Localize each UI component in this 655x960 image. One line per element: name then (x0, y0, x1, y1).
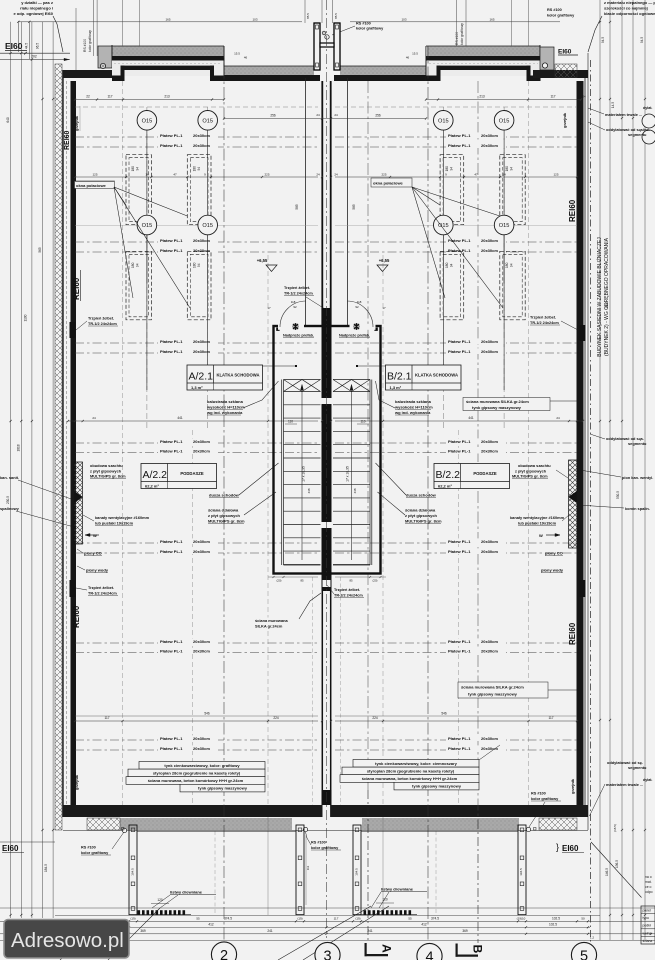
svg-text:dusza schodów: dusza schodów (406, 493, 437, 498)
svg-text:241: 241 (367, 929, 373, 933)
right exterior wall thick face (577, 81, 584, 805)
svg-text:94: 94 (509, 167, 513, 171)
svg-text:Płatew PL-1: Płatew PL-1 (160, 539, 183, 544)
skylight A row2 left (126, 251, 151, 319)
left exterior wall insulation hatch (55, 64, 62, 830)
svg-text:tynk cienkowarstwowy, kolor: g: tynk cienkowarstwowy, kolor: grafitowy (164, 763, 240, 768)
svg-text:24: 24 (92, 416, 96, 420)
svg-text:wg ind. wykonania: wg ind. wykonania (206, 410, 243, 415)
svg-text:110: 110 (360, 420, 365, 424)
svg-text:165: 165 (489, 18, 494, 22)
svg-text:94: 94 (197, 167, 201, 171)
svg-text:balustrada szklana: balustrada szklana (395, 399, 432, 404)
axis line 4 vertical (427, 46, 429, 941)
sciana murowana SILKA note unit B upper (463, 398, 550, 411)
axis A line (367, 790, 369, 943)
right margin tick marks (599, 21, 601, 23)
stair direction arrow B (351, 386, 353, 560)
svg-text:585: 585 (352, 204, 356, 210)
svg-text:ściana działowa: ściana działowa (208, 508, 239, 513)
right exterior wall lines / dylatacja (584, 70, 586, 817)
svg-text:PODDASZE: PODDASZE (473, 471, 496, 476)
top-right corner parapet detail (540, 47, 554, 70)
svg-text:180: 180 (192, 262, 196, 268)
svg-text:20x30cm: 20x30cm (481, 238, 498, 243)
svg-text:panel: panel (643, 909, 652, 913)
svg-text:5: 5 (580, 949, 588, 960)
interior vertical grid line x528 (528, 81, 530, 805)
center axis line (326, 0, 328, 938)
svg-text:EI60: EI60 (562, 844, 579, 853)
svg-text:94.5: 94.5 (601, 37, 605, 43)
svg-text:20x30cm: 20x30cm (193, 746, 210, 751)
svg-text:103: 103 (252, 18, 257, 22)
svg-text:Płatew PL-1: Płatew PL-1 (160, 133, 183, 138)
stair treads flight A (284, 391, 321, 393)
O15 window circle A1 (137, 111, 157, 131)
svg-text:Płatew PL-1: Płatew PL-1 (448, 349, 471, 354)
svg-text:374.5: 374.5 (224, 917, 232, 921)
stair flight side lines (281, 380, 283, 566)
svg-text:102.5: 102.5 (549, 923, 557, 927)
svg-text:O15: O15 (202, 223, 213, 229)
interior dim row y421 (68, 420, 318, 422)
interior dashed ceiling line (75, 106, 318, 108)
svg-text:369: 369 (462, 929, 468, 933)
terrace A left post (129, 825, 137, 915)
party wall upper thin section (321, 81, 323, 326)
svg-text:TR-1/2 24x24cm: TR-1/2 24x24cm (88, 322, 117, 326)
svg-text:dylat.: dylat. (643, 106, 652, 110)
svg-text:TR-2/2 24x24cm: TR-2/2 24x24cm (334, 594, 363, 598)
svg-text:1.2: 1.2 (590, 936, 595, 940)
svg-text:lub pustaki 19x19cm: lub pustaki 19x19cm (518, 520, 557, 525)
svg-text:94: 94 (136, 167, 140, 171)
svg-text:+6,55: +6,55 (257, 258, 268, 263)
svg-text:118: 118 (357, 300, 362, 304)
interior dim row y99 right (426, 99, 581, 101)
party wall stair section (322, 326, 332, 398)
svg-text:O15: O15 (142, 223, 153, 229)
svg-text:17: 17 (267, 306, 271, 310)
svg-text:A: A (380, 944, 394, 953)
svg-text:22: 22 (86, 95, 90, 99)
svg-text:TR-1/2 24x24cm: TR-1/2 24x24cm (284, 292, 313, 296)
svg-text:kolor grafitowy: kolor grafitowy (547, 14, 575, 18)
stair balustrade diagonals A (284, 380, 303, 392)
O15 window circle B2 (494, 111, 514, 131)
svg-text:na o: na o (645, 875, 652, 879)
svg-text:94.5: 94.5 (640, 37, 644, 43)
svg-text:85.5: 85.5 (306, 13, 310, 19)
svg-text:(18.5): (18.5) (613, 824, 617, 832)
interior vertical grid lower-half lines (192, 430, 194, 805)
svg-text:94: 94 (509, 263, 513, 267)
svg-text:24: 24 (316, 113, 320, 117)
svg-text:materiałem trwale ...: materiałem trwale ... (606, 782, 643, 787)
svg-text:grzejnik: grzejnik (570, 778, 575, 794)
wall spec box unit B (353, 760, 479, 768)
svg-text:374.5: 374.5 (431, 917, 439, 921)
svg-text:styropian 28cm (pogrubienie na: styropian 28cm (pogrubienie na kasetę ro… (367, 769, 455, 774)
svg-text:RS #100: RS #100 (83, 39, 87, 52)
balustrada leader A (243, 381, 279, 408)
top wall raised section left grey band (112, 46, 224, 56)
W arrow right (546, 534, 560, 536)
svg-text:spalinowy: spalinowy (0, 506, 20, 511)
bottom wall grey band right (362, 818, 519, 830)
svg-text:20x30cm: 20x30cm (481, 539, 498, 544)
svg-text:(19): (19) (297, 917, 302, 921)
svg-text:O15: O15 (499, 119, 510, 125)
svg-text:225: 225 (381, 173, 386, 177)
svg-text:Trzpień żelbet.: Trzpień żelbet. (284, 286, 310, 290)
left wall trzpien block upper (70, 322, 76, 338)
axis line A upper (367, 81, 369, 790)
svg-text:184.5: 184.5 (44, 864, 48, 872)
svg-text:Płatew PL-1: Płatew PL-1 (160, 248, 183, 253)
svg-text:wysokość H=110cm: wysokość H=110cm (394, 405, 433, 410)
terrace B left post (353, 825, 361, 915)
terrace A battens comb (138, 910, 141, 915)
svg-text:55: 55 (408, 917, 412, 921)
svg-text:(19)10: (19)10 (517, 917, 526, 921)
svg-text:62,2 m²: 62,2 m² (145, 484, 159, 489)
top wall right insulation zone (427, 61, 540, 77)
cut table bottom-right (641, 906, 655, 944)
room label B/2.1 KLATKA SCHODOWA (386, 365, 462, 390)
svg-text:(19): (19) (130, 917, 135, 921)
svg-text:224: 224 (273, 716, 279, 720)
svg-text:kolor grafitowy: kolor grafitowy (88, 30, 92, 52)
svg-text:Płatew PL-1: Płatew PL-1 (448, 639, 471, 644)
svg-text:180: 180 (505, 262, 509, 268)
door swing arc B (347, 301, 373, 327)
top wall left insulation zone (112, 61, 224, 77)
svg-text:kanały wentylacyjne #160mm: kanały wentylacyjne #160mm (95, 515, 150, 520)
svg-text:20x30cm: 20x30cm (481, 349, 498, 354)
svg-text:kolor grafitowy: kolor grafitowy (460, 23, 464, 45)
svg-text:194.5: 194.5 (131, 868, 135, 876)
svg-text:Nadproże prefab.: Nadproże prefab. (283, 334, 314, 338)
svg-text:O15: O15 (202, 119, 213, 125)
svg-text:85.5: 85.5 (334, 13, 338, 19)
svg-text:117: 117 (334, 917, 339, 921)
svg-text:20x30cm: 20x30cm (193, 449, 210, 454)
skylight centre lines (146, 130, 148, 283)
top wall raised section right grey band (426, 46, 540, 56)
svg-text:Płatew PL-1: Płatew PL-1 (160, 649, 183, 654)
svg-text:KLATKA SCHODOWA: KLATKA SCHODOWA (216, 373, 259, 378)
svg-text:20x30cm: 20x30cm (193, 736, 210, 741)
spec box leader B (479, 745, 500, 760)
door swing arc A (280, 301, 306, 327)
terrace B battens comb (364, 910, 367, 915)
bottom wall insulation hatch right (539, 818, 577, 830)
svg-text:listwy drewniane: listwy drewniane (381, 887, 414, 892)
svg-text:grzejnik: grzejnik (562, 112, 567, 128)
svg-text:24: 24 (556, 416, 560, 420)
svg-text:136.5: 136.5 (615, 860, 619, 868)
svg-text:180: 180 (505, 166, 509, 172)
svg-text:Trzpień żelbet.: Trzpień żelbet. (88, 317, 114, 321)
shaft enclosure left (74, 462, 83, 544)
svg-text:441: 441 (468, 416, 474, 420)
svg-text:Płatew PL-1: Płatew PL-1 (160, 339, 183, 344)
svg-text:15.5: 15.5 (234, 52, 240, 56)
svg-text:z płyt gipsowych: z płyt gipsowych (90, 468, 122, 473)
svg-text:okna połaciowe: okna połaciowe (76, 183, 107, 188)
svg-text:165: 165 (165, 18, 170, 22)
chimney at top center right bar (334, 23, 340, 70)
svg-text:ce o: ce o (645, 885, 652, 889)
svg-text:piony CO: piony CO (84, 551, 102, 556)
svg-text:180: 180 (131, 262, 135, 268)
top wall right inner face with recess (426, 76, 440, 82)
stair landing top edge (284, 379, 321, 381)
svg-text:EI60: EI60 (558, 49, 572, 56)
door opening gaps in stair top wall (278, 324, 304, 330)
svg-text:94: 94 (450, 167, 454, 171)
svg-text:213: 213 (479, 95, 485, 99)
svg-text:125: 125 (92, 173, 97, 177)
stair enclosure top corner squares (276, 328, 279, 331)
svg-text:Nadproże prefab.: Nadproże prefab. (339, 334, 370, 338)
skylight B row2 right (500, 251, 525, 319)
svg-text:REI60: REI60 (568, 622, 577, 645)
interior dim row y118 center (224, 118, 426, 120)
svg-text:85: 85 (349, 579, 353, 583)
svg-text:segmentu: segmentu (628, 132, 647, 137)
svg-text:RS #100: RS #100 (547, 8, 562, 12)
top wall raised section left black band (112, 56, 224, 61)
shaft enclosure right (569, 460, 578, 548)
top margin horizontal dim line (18, 21, 302, 23)
svg-text:14.5: 14.5 (611, 102, 615, 108)
corridor wall lines above stair (305, 78, 307, 327)
O15 window circle B4 (494, 215, 514, 235)
svg-text:Płatew PL-1: Płatew PL-1 (160, 639, 183, 644)
svg-text:224: 224 (372, 716, 378, 720)
interior grid line through circle row (75, 224, 318, 226)
svg-text:20x30cm: 20x30cm (481, 449, 498, 454)
diagonal leaders to axis circles (278, 906, 371, 960)
svg-text:kolor grafitowy: kolor grafitowy (311, 846, 339, 850)
svg-text:}: } (556, 842, 559, 852)
svg-text:Płatew PL-1: Płatew PL-1 (448, 339, 471, 344)
leader from top-left note to corner (53, 16, 63, 52)
stair enclosure walls (274, 326, 381, 574)
svg-text:ściana murowana SILKA gr.24cm: ściana murowana SILKA gr.24cm (461, 685, 524, 690)
svg-text:grzejnik: grzejnik (74, 774, 79, 790)
svg-text:grzejnik: grzejnik (74, 115, 79, 131)
svg-text:ściana murowana, beton komórko: ściana murowana, beton komórkowy H+H gr.… (148, 778, 244, 783)
svg-text:z płyt gipsowych: z płyt gipsowych (515, 468, 547, 473)
svg-text:Trzpień żelbet.: Trzpień żelbet. (530, 316, 556, 320)
skylight B row2 left (440, 251, 464, 319)
svg-text:20x30cm: 20x30cm (481, 143, 498, 148)
svg-text:Płatew PL-1: Płatew PL-1 (448, 133, 471, 138)
dim lines top-left (0, 52, 70, 54)
svg-text:92: 92 (355, 305, 359, 309)
svg-text:z materiału niepalnego — pas z: z materiału niepalnego — pas z (604, 0, 655, 5)
svg-text:46: 46 (244, 56, 248, 60)
O15 window circle B3 (434, 215, 454, 235)
svg-text:SILKA gr.24cm: SILKA gr.24cm (255, 623, 283, 628)
skylight B row1 right (500, 155, 525, 225)
svg-text:W: W (539, 533, 543, 538)
svg-text:Płatew PL-1: Płatew PL-1 (448, 549, 471, 554)
interior vertical grid line x122 (122, 81, 124, 805)
room label A/2.1 KLATKA SCHODOWA (187, 365, 263, 390)
O15 window circle A2 (198, 111, 218, 131)
svg-text:dusza schodów: dusza schodów (209, 493, 240, 498)
svg-text:typu: typu (643, 916, 650, 920)
svg-text:17: 17 (382, 306, 386, 310)
svg-text:tynk cienkowarstwowy, kolor: c: tynk cienkowarstwowy, kolor: ciemnoszary (375, 761, 458, 766)
skylight A row1 left (126, 155, 151, 225)
svg-text:dylat.: dylat. (643, 778, 652, 782)
svg-text:kolor grafitowy: kolor grafitowy (81, 851, 109, 855)
svg-text:kolor grafitowy: kolor grafitowy (356, 27, 384, 31)
leader dot A/2.1 (263, 365, 297, 367)
top wall left inner face with recess (112, 76, 124, 82)
interior vertical grid stair flank lines (267, 255, 269, 805)
bottom wall party-wall slot (323, 805, 331, 817)
svg-text:Płatew PL-1: Płatew PL-1 (448, 736, 471, 741)
top-left corner parapet detail (98, 46, 112, 68)
top-left margin dim verticals (17, 22, 19, 52)
svg-text:117: 117 (107, 95, 112, 99)
svg-text:Płatew PL-1: Płatew PL-1 (160, 449, 183, 454)
svg-text:wysokość H=110cm: wysokość H=110cm (206, 405, 245, 410)
svg-text:REI60: REI60 (72, 277, 81, 300)
axis line 2 vertical (223, 46, 225, 940)
axis circle 5 (571, 942, 596, 960)
svg-text:24: 24 (582, 95, 586, 99)
svg-text:241: 241 (267, 929, 273, 933)
svg-text:RS #100: RS #100 (455, 32, 459, 45)
svg-text:Płatew PL-1: Płatew PL-1 (160, 746, 183, 751)
svg-text:listwy drewniane: listwy drewniane (170, 890, 203, 895)
top extension lines at recess edges (122, 0, 124, 46)
svg-text:20x30cm: 20x30cm (481, 133, 498, 138)
svg-text:213: 213 (164, 95, 170, 99)
stair vent grilles top (293, 324, 298, 329)
svg-text:kan. sanit.: kan. sanit. (0, 475, 19, 480)
svg-text:120: 120 (382, 898, 388, 902)
right margin dim verticals (599, 0, 601, 940)
svg-text:kanały wentylacyjne #160mm: kanały wentylacyjne #160mm (510, 515, 565, 520)
svg-text:62,2 m²: 62,2 m² (438, 484, 452, 489)
svg-text:B/2.1: B/2.1 (387, 371, 412, 383)
diagonal leader bottom-right (591, 842, 642, 898)
svg-text:MULTIGIPS gr. 8cm: MULTIGIPS gr. 8cm (405, 519, 442, 524)
axis circle 2 (211, 942, 236, 960)
svg-text:20x30cm: 20x30cm (481, 639, 498, 644)
svg-text:17 x 18,35: 17 x 18,35 (346, 466, 350, 482)
svg-text:20x30cm: 20x30cm (481, 339, 498, 344)
balustrada leader B (376, 381, 396, 408)
bottom dim ticks row1 (128, 920, 130, 922)
svg-text:Płatew PL-1: Płatew PL-1 (448, 539, 471, 544)
svg-text:pion kan. wentyl.: pion kan. wentyl. (622, 475, 653, 480)
leader from top-right note to corner (588, 16, 602, 52)
watermark Adresowo.pl (4, 920, 129, 959)
svg-text:Płatew PL-1: Płatew PL-1 (448, 649, 471, 654)
svg-text:piony wody: piony wody (86, 568, 109, 573)
skylight B row1 left (440, 155, 464, 225)
svg-text:kolor grafitowy: kolor grafitowy (531, 797, 559, 801)
bottom dim ticks row2 (128, 926, 130, 928)
svg-text:20x30cm: 20x30cm (193, 549, 210, 554)
svg-text:94: 94 (136, 263, 140, 267)
svg-text:Płatew PL-1: Płatew PL-1 (448, 143, 471, 148)
svg-text:369: 369 (140, 929, 146, 933)
svg-text:1,3 m²: 1,3 m² (390, 385, 402, 390)
svg-text:RS #100: RS #100 (356, 22, 371, 26)
svg-text:Płatew PL-1: Płatew PL-1 (160, 349, 183, 354)
svg-text:448: 448 (307, 488, 311, 493)
svg-text:materiałem trwale ...: materiałem trwale ... (605, 112, 642, 117)
svg-text:20x30cm: 20x30cm (481, 439, 498, 444)
svg-text:20x30cm: 20x30cm (193, 439, 210, 444)
svg-text:wg ind. wykonania: wg ind. wykonania (394, 410, 431, 415)
chimney cross bar (320, 43, 334, 47)
svg-text:20x30cm: 20x30cm (193, 539, 210, 544)
svg-text:Płatew PL-1: Płatew PL-1 (160, 439, 183, 444)
svg-text:podkł: podkł (643, 924, 651, 928)
bottom dim ticks row3 (62, 933, 64, 935)
svg-text:102.5: 102.5 (552, 917, 560, 921)
terrace B right post (518, 825, 526, 915)
svg-text:O15: O15 (438, 119, 449, 125)
skylight A row2 right (187, 251, 211, 319)
svg-text:TR-1/2 24x24cm: TR-1/2 24x24cm (530, 321, 559, 325)
svg-text:+6,55: +6,55 (379, 258, 390, 263)
svg-text:3: 3 (323, 949, 331, 960)
svg-text:180: 180 (445, 262, 449, 268)
bottom exterior wall (63, 805, 588, 817)
top wall center section black band (224, 75, 320, 81)
svg-text:riału niepalnego i: riału niepalnego i (20, 6, 53, 11)
svg-text:segmentu: segmentu (628, 765, 647, 770)
interior dim row y177 (75, 176, 318, 178)
svg-text:obudowa szachtu: obudowa szachtu (90, 463, 123, 468)
axis B line (477, 820, 479, 943)
svg-text:94: 94 (450, 263, 454, 267)
top wall step verticals (223, 46, 225, 81)
bottom dim row lines (0, 907, 655, 909)
sciana murowana SILKA note unit A (253, 618, 298, 629)
interior dim row y720 (75, 715, 318, 717)
svg-text:412: 412 (208, 923, 214, 927)
svg-text:125: 125 (553, 173, 558, 177)
svg-text:256: 256 (375, 114, 381, 118)
svg-text:(20): (20) (277, 579, 282, 583)
svg-text:46: 46 (406, 56, 410, 60)
svg-text:1818: 1818 (17, 444, 21, 451)
svg-text:A/2.2: A/2.2 (143, 469, 168, 481)
left margin tick marks (10, 52, 12, 54)
okna polaciowe label B (371, 178, 412, 187)
extension lines above building left (75, 8, 77, 70)
svg-text:225: 225 (264, 173, 269, 177)
svg-text:RS #100: RS #100 (531, 792, 546, 796)
svg-text:TR-1/2 24x24cm: TR-1/2 24x24cm (88, 592, 117, 596)
svg-text:tynk gipsowy maszynowy: tynk gipsowy maszynowy (472, 405, 522, 410)
svg-text:MULTIGIPS gr. 8cm: MULTIGIPS gr. 8cm (90, 474, 126, 479)
